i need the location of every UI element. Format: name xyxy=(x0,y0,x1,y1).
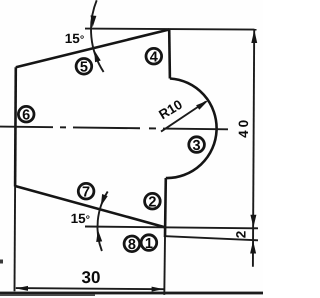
arrow 30 right xyxy=(152,287,164,292)
arrow top15 lower xyxy=(94,50,101,62)
svg-text:15°: 15° xyxy=(65,31,84,46)
angle arc top 15 xyxy=(91,0,104,72)
edge 4 right vertical top xyxy=(168,30,171,79)
arrow 40 bottom / 2 upper xyxy=(250,215,256,228)
balloon circle 4 xyxy=(146,48,162,64)
svg-text:3: 3 xyxy=(193,138,201,154)
scan artifact left edge mark xyxy=(0,260,3,264)
scan artifact bottom bar xyxy=(0,292,263,295)
svg-text:2: 2 xyxy=(233,231,248,239)
balloon circle 3 xyxy=(189,137,205,153)
arrow bottom15 upper xyxy=(101,194,108,206)
arrow 30 left xyxy=(16,286,28,291)
balloon circle 6 xyxy=(18,106,34,122)
edge 2 right vertical below arc xyxy=(164,178,167,237)
arrow 2 lower xyxy=(250,241,256,254)
edge 7 bottom sloped 15deg xyxy=(15,186,165,227)
extension line y240 (2 dim lower) xyxy=(166,236,258,240)
balloon circle 2 xyxy=(145,193,161,209)
edge 3 semicircular arc R10 xyxy=(166,79,217,179)
svg-text:1: 1 xyxy=(145,236,153,252)
svg-text:4: 4 xyxy=(150,50,158,66)
arrow 40 top xyxy=(251,30,257,43)
balloon circle 1 xyxy=(141,235,157,251)
svg-text:30: 30 xyxy=(82,268,101,287)
extension line left (to 30 dim) xyxy=(14,187,17,292)
svg-text:8: 8 xyxy=(128,237,136,253)
top extension / angle reference line xyxy=(85,29,257,30)
svg-text:7: 7 xyxy=(82,185,90,201)
edge 5 top sloped 15deg xyxy=(16,30,169,68)
balloon circle 5 xyxy=(76,59,92,75)
arrow bottom15 lower xyxy=(96,230,102,242)
balloon circle 8 xyxy=(124,236,140,252)
svg-text:2: 2 xyxy=(148,195,156,211)
leader line R10 xyxy=(161,102,206,132)
centerline dash-dot xyxy=(0,127,228,130)
balloon circle 7 xyxy=(78,183,94,199)
arrow top15 upper xyxy=(91,15,97,27)
angle arc bottom 15 xyxy=(97,192,107,252)
extension line y227 (2 dim upper / angle ref) xyxy=(85,227,258,229)
edge 6 left vertical of part xyxy=(14,67,17,186)
dimension line 30 xyxy=(16,288,164,289)
arrow R10 xyxy=(196,100,208,110)
svg-text:5: 5 xyxy=(80,60,88,76)
svg-text:15°: 15° xyxy=(71,211,90,226)
svg-text:40: 40 xyxy=(236,117,251,138)
dimension line 40/2 vertical xyxy=(253,31,254,267)
extension line right (to 30 dim) xyxy=(163,237,166,295)
svg-text:6: 6 xyxy=(22,108,30,124)
